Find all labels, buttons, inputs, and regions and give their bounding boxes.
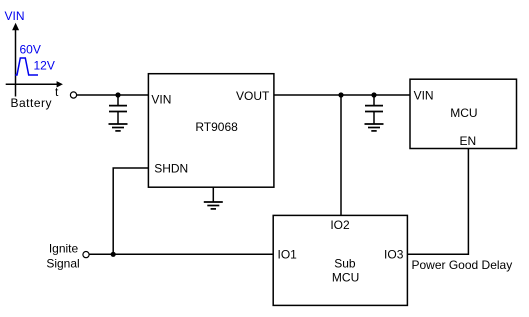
svg-text:Sub: Sub <box>334 257 356 271</box>
battery input terminal <box>70 92 76 98</box>
svg-text:MCU: MCU <box>450 106 477 120</box>
svg-text:Ignite: Ignite <box>49 241 79 255</box>
ignite input terminal <box>83 252 89 258</box>
svg-text:VIN: VIN <box>151 93 171 107</box>
svg-text:VIN: VIN <box>414 89 434 103</box>
surge pulse waveform <box>15 58 38 75</box>
Sub MCU box <box>273 215 407 305</box>
wire EN to IO3 <box>408 149 469 255</box>
wire VOUT to IO2 <box>340 95 342 216</box>
wire VOUT rail to MCU VIN <box>274 94 410 96</box>
svg-text:IO3: IO3 <box>384 248 404 262</box>
graph horizontal axis <box>6 81 63 87</box>
svg-text:Power Good Delay: Power Good Delay <box>412 258 513 272</box>
svg-text:12V: 12V <box>34 58 55 72</box>
junction node IO2 tap <box>338 92 343 97</box>
svg-text:VIN: VIN <box>5 9 25 23</box>
capacitor COUT <box>365 95 383 124</box>
svg-text:60V: 60V <box>20 42 41 56</box>
junction node ignite branch <box>111 252 116 257</box>
svg-text:SHDN: SHDN <box>154 161 188 175</box>
junction node input cap <box>115 92 120 97</box>
svg-text:RT9068: RT9068 <box>195 120 238 134</box>
svg-text:Signal: Signal <box>46 256 79 270</box>
capacitor CIN <box>109 95 127 124</box>
svg-text:Battery: Battery <box>11 96 53 110</box>
svg-text:MCU: MCU <box>332 271 359 285</box>
MCU box <box>410 79 517 148</box>
ground (RT9068 exposed pad) <box>204 187 223 209</box>
wire battery to VIN pin <box>77 94 149 96</box>
op regulator U1 RT9068 box <box>148 74 274 188</box>
ground (output cap) <box>365 124 384 131</box>
wire ignite to IO1 <box>89 253 273 255</box>
svg-text:IO1: IO1 <box>278 248 298 262</box>
wire ignite to SHDN <box>113 168 148 254</box>
svg-text:IO2: IO2 <box>330 218 350 232</box>
svg-text:VOUT: VOUT <box>236 89 270 103</box>
ground (input cap) <box>109 124 128 131</box>
graph vertical axis <box>12 23 19 97</box>
svg-text:EN: EN <box>460 134 477 148</box>
junction node output cap <box>371 92 376 97</box>
